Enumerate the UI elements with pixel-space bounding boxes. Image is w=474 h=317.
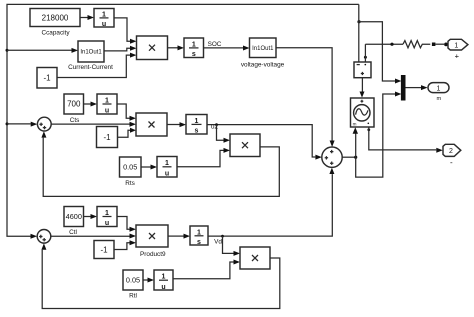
svg-text:Product9: Product9 (140, 251, 166, 258)
svg-text:voltage-voltage: voltage-voltage (241, 62, 285, 69)
wire 0.05 to 1/u Rts (141, 165, 157, 170)
svg-text:u: u (105, 108, 109, 115)
svg-text:1: 1 (192, 41, 196, 48)
wire left rail to In1Out1 Current input (7, 48, 78, 53)
svg-text:Rtl: Rtl (129, 293, 137, 300)
svg-text:-1: -1 (103, 133, 111, 142)
node SOC (208, 41, 222, 48)
wire product mid to integrator (167, 122, 186, 127)
constant -1 (top) (37, 68, 57, 89)
node Vd (214, 238, 222, 245)
svg-text:Cts: Cts (70, 117, 80, 124)
summing junction sum2 (37, 230, 51, 244)
subsystem In1Out1 Current-Current (68, 41, 113, 71)
svg-text:Rts: Rts (125, 180, 135, 187)
svg-text:u: u (102, 21, 106, 28)
svg-text:-1: -1 (43, 73, 51, 82)
wire voltage out down to sum3 top input (276, 48, 335, 147)
product block (mid) (136, 113, 167, 136)
svg-text:s: s (192, 51, 196, 58)
svg-text:s: s (197, 239, 201, 246)
wire voltage source bottom-right terminal down and right to port 2 (367, 127, 442, 153)
svg-text:u: u (105, 220, 109, 227)
wire sum3 output to node dot (342, 156, 356, 158)
svg-text:s: s (195, 128, 199, 135)
sum block (rect, minus/plus) (354, 62, 371, 78)
constant Cts 700 (64, 94, 84, 124)
resistor Rs (series resistance) (403, 41, 430, 48)
constant Ctl 4600 (64, 207, 84, 236)
square node marker on plus line (432, 43, 436, 47)
svg-text:Ctl: Ctl (69, 229, 77, 236)
svg-text:1: 1 (102, 11, 106, 18)
wire square to port dot (435, 43, 448, 47)
wire 1/u to product top input1 (114, 18, 137, 44)
product block (top) (137, 36, 168, 60)
wire sum2 out to Product9 input2 (51, 234, 136, 239)
integrator 1/s (SOC) (184, 38, 204, 58)
svg-text:218000: 218000 (42, 14, 69, 23)
wire Product9 to integrator (168, 234, 190, 239)
wire 218000 to 1/u (80, 15, 94, 20)
svg-text:0.05: 0.05 (123, 163, 137, 172)
wire product2 feedback down-left-up to sum1 bottom input (41, 131, 279, 196)
constant Rts 0.05 (120, 157, 142, 187)
wire plus-terminal rail to sum block input2 (364, 44, 366, 62)
junction dot above sum block input2 (364, 56, 367, 59)
junction dot at sum3 output (354, 156, 357, 159)
connection port 1 (+) (448, 39, 468, 60)
controlled voltage source (351, 98, 375, 127)
wire 1/u lower to Product9 input1 (117, 217, 136, 232)
wire Current out to product top input2 (104, 46, 137, 51)
math function 1/u (lower) (97, 207, 117, 228)
math function 1/u (Rts) (157, 157, 177, 178)
integrator 1/s (lower) (190, 226, 208, 246)
math function 1/u (Rtl) (154, 270, 173, 291)
wire -1 to product top input3 (57, 53, 137, 78)
product block Product9 (136, 225, 168, 258)
svg-text:700: 700 (67, 100, 81, 109)
wire node down right and up to Mux input2 (356, 92, 402, 178)
constant -1 (mid) (97, 127, 118, 148)
wire top feedback bus from node at (359,21.7) up and across top to left rail down to sum2 (7, 4, 359, 236)
wire Vd across and up to sum3 bottom input (208, 168, 334, 237)
wire -1 mid to product mid input3 (118, 128, 137, 138)
wire lower product feedback down-left-up to sum2 bottom input (41, 243, 279, 308)
math function 1/u (mid) (97, 94, 117, 115)
svg-text:m: m (353, 122, 357, 127)
svg-text:Current-Current: Current-Current (68, 64, 113, 71)
connection port 2 (-) (443, 144, 461, 167)
svg-text:u: u (165, 171, 169, 178)
wire mux output to outport m (406, 85, 428, 90)
wire sum block output down into voltage source top (360, 78, 365, 98)
wire 1/u Rts up to product2 input2 (177, 148, 230, 167)
wire 700 to 1/u (84, 102, 98, 107)
junction dot at top feedback node (357, 20, 360, 23)
svg-text:In1Out1: In1Out1 (80, 50, 102, 56)
svg-text:1: 1 (162, 274, 166, 281)
junction dot on u2 line (215, 123, 218, 126)
svg-text:Ccapacity: Ccapacity (41, 30, 70, 37)
node u2 (211, 123, 219, 130)
svg-text:0.05: 0.05 (126, 276, 140, 285)
summing junction sum1 (37, 117, 51, 131)
summing junction sum3 (Add) (322, 147, 342, 167)
wire left rail to sum1 left input (7, 122, 37, 127)
outport 1 (m) (428, 83, 449, 102)
wire node up to voltage source bottom-left terminal (353, 127, 358, 157)
svg-text:SOC: SOC (208, 41, 222, 48)
wire plus-terminal rail with junction dot to resistor (365, 43, 403, 46)
wire sum1 out to product mid input2 (51, 122, 136, 127)
svg-text:m: m (436, 96, 441, 102)
product block product2 (right mid) (230, 134, 260, 157)
constant Rtl 0.05 (123, 270, 143, 300)
wire SOC to In1Out1 voltage (204, 46, 250, 51)
constant Ccapacity 218000 (30, 9, 80, 37)
junction dot left rail to sum1 (6, 122, 9, 125)
wire -1 lower to Product9 input3 (114, 240, 136, 249)
subsystem In1Out1 voltage-voltage (241, 38, 285, 69)
constant -1 (lower) (94, 241, 114, 259)
svg-text:+: + (455, 51, 460, 60)
mux Mux (401, 75, 406, 101)
svg-text:1: 1 (165, 160, 169, 167)
wire u2 branch down to product2 input1 (217, 125, 231, 143)
svg-text:Vd: Vd (214, 238, 222, 245)
svg-text:4600: 4600 (66, 212, 82, 221)
svg-text:-: - (450, 158, 453, 167)
product block (lower right) (240, 247, 270, 269)
wire u2 across to sum3 left input (207, 125, 322, 160)
integrator 1/s (mid) (186, 115, 207, 135)
junction dot on Vd line (221, 235, 224, 238)
wire 1/u mid to product mid input1 (117, 104, 136, 121)
wire Vd branch down to lower product input1 (223, 236, 241, 256)
svg-text:1: 1 (454, 42, 458, 49)
svg-text:u: u (161, 284, 165, 291)
wire node down into sum block input1 (358, 4, 360, 62)
wire product to integrator 1/s (168, 45, 185, 50)
junction dot left rail to Current subsystem (6, 49, 9, 52)
svg-text:2: 2 (449, 148, 453, 155)
svg-text:In1Out1: In1Out1 (252, 46, 274, 52)
math function 1/u (capacity) (94, 9, 114, 29)
svg-text:-1: -1 (100, 245, 108, 254)
wire 0.05 to 1/u Rtl (143, 278, 154, 283)
arrow into sum2 left input (31, 234, 38, 239)
wire 1/u Rtl up to lower product input2 (173, 260, 240, 279)
svg-text:1: 1 (437, 85, 441, 92)
wire 4600 to 1/u (84, 214, 98, 219)
wire node right and down to Mux input1 (359, 22, 401, 84)
